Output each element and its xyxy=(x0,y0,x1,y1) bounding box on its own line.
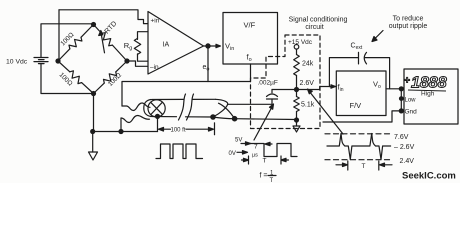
svg-text:+: + xyxy=(404,76,410,87)
svg-text:Gnd: Gnd xyxy=(405,109,418,116)
square wave glyph xyxy=(156,144,203,159)
svg-text:.002µF: .002µF xyxy=(258,80,278,87)
svg-text:10 Vdc: 10 Vdc xyxy=(6,59,28,66)
DPM display underline xyxy=(408,90,446,91)
svg-text:+in: +in xyxy=(151,17,160,24)
wire battery+ to bridge top node xyxy=(41,24,94,58)
svg-text:–in: –in xyxy=(150,64,159,71)
capacitor .002uF xyxy=(267,90,278,105)
node cable return junction xyxy=(119,130,123,134)
svg-text:100 ft: 100 ft xyxy=(170,127,185,133)
wire bridge left node to top bus xyxy=(58,10,60,61)
resistor 100 ohm top-left arm xyxy=(56,22,96,63)
svg-text:1888: 1888 xyxy=(411,74,447,91)
svg-text:– 2.6V: – 2.6V xyxy=(394,144,415,151)
svg-text:7: 7 xyxy=(254,144,258,151)
svg-text:F/V: F/V xyxy=(350,101,362,110)
waveform 5V square wave xyxy=(237,142,297,164)
wire ground bus to cable return xyxy=(93,131,158,133)
resistor 100 ohm bottom-right arm xyxy=(91,59,129,96)
svg-text:2.6V: 2.6V xyxy=(300,80,315,87)
node bridge top xyxy=(92,23,96,27)
wire eo measurement stub xyxy=(207,46,209,82)
ground symbol signal conditioning xyxy=(293,126,300,132)
wire F/V Vo to DPM xyxy=(386,88,401,90)
wire bridge right node to IA -in xyxy=(127,61,148,66)
waveform F/V input spikes xyxy=(325,134,392,171)
node Low terminal xyxy=(400,97,404,101)
wire 2.6V node to F/V fin xyxy=(272,87,335,90)
resistor RTD top-right arm xyxy=(91,22,129,63)
terminal +15 Vdc xyxy=(294,45,299,50)
wire IA output eo xyxy=(204,45,221,47)
DPM meter block xyxy=(404,69,458,124)
cable shield circle xyxy=(148,100,165,117)
resistor 24k xyxy=(294,55,300,76)
cable jacket right end xyxy=(213,99,228,117)
svg-text:f =: f = xyxy=(260,173,268,180)
wire top bus to IA +in xyxy=(59,10,148,24)
dimension 100 ft xyxy=(159,123,215,135)
svg-text:2.4V: 2.4V xyxy=(400,158,415,165)
wire 2.6V node to 5.1k xyxy=(296,90,298,97)
cable upper conductor curl xyxy=(122,103,150,111)
svg-text:+15 Vdc: +15 Vdc xyxy=(288,39,313,46)
leader arrow to output ripple cap xyxy=(374,31,383,40)
svg-text:Low: Low xyxy=(405,98,417,104)
resistor 5.1k xyxy=(294,97,300,112)
svg-text:Signal conditioning: Signal conditioning xyxy=(289,17,348,24)
svg-text:IA: IA xyxy=(163,41,170,48)
node cable bottom B xyxy=(232,117,236,121)
wire bridge bottom to ground bus xyxy=(93,94,95,132)
svg-text:To reduce: To reduce xyxy=(393,16,424,23)
node cable shield to bus xyxy=(156,114,160,118)
cable lower conductor curl xyxy=(121,116,150,132)
wire Gnd return under F/V xyxy=(323,111,401,122)
svg-text:V/F: V/F xyxy=(244,21,256,30)
leader arrow waveform to 2.6V node xyxy=(309,91,343,134)
ground symbol xyxy=(92,132,94,153)
svg-text:5V: 5V xyxy=(235,138,242,144)
svg-text:7.6V: 7.6V xyxy=(394,134,409,141)
svg-text:T: T xyxy=(270,178,274,183)
node Vo terminal xyxy=(399,87,403,91)
resistor Rg xyxy=(134,32,148,62)
wire fo output down-left to cable xyxy=(122,64,251,106)
node bridge bottom xyxy=(92,92,96,96)
wire cable signal to coupling cap xyxy=(228,103,272,105)
cable break marks xyxy=(179,94,186,120)
wire battery- to bridge bottom node xyxy=(41,64,94,94)
F/V converter block xyxy=(336,71,386,116)
fraction bar f=1/T xyxy=(268,175,276,177)
svg-text:High: High xyxy=(421,91,435,98)
svg-text:SeekIC.com: SeekIC.com xyxy=(402,171,456,182)
node 5.1k ground xyxy=(295,118,299,122)
cable jacket outline xyxy=(144,100,151,117)
svg-text:output ripple: output ripple xyxy=(389,23,428,30)
node eo xyxy=(206,44,210,48)
capacitor Cext loop xyxy=(329,58,358,87)
node bridge left xyxy=(56,59,60,63)
svg-text:0V: 0V xyxy=(229,151,236,157)
svg-text:circuit: circuit xyxy=(305,24,323,31)
V/F converter block xyxy=(223,13,278,65)
svg-text:T: T xyxy=(263,158,267,165)
svg-text:µs: µs xyxy=(252,153,258,159)
node cable bottom A xyxy=(211,115,215,119)
node ground bus junction xyxy=(91,130,95,134)
return bus cable to 5.1k ground xyxy=(213,117,297,120)
node bridge right xyxy=(125,59,129,63)
signal conditioning dashed box xyxy=(251,35,321,129)
svg-text:T: T xyxy=(362,163,366,170)
node Gnd terminal xyxy=(399,109,403,113)
wire DPM terminal chain xyxy=(400,89,402,111)
leader arrow waveform to signal wire xyxy=(254,106,273,140)
node 2.6V xyxy=(295,88,299,92)
op-amp IA xyxy=(148,12,204,75)
RTD variable arrow xyxy=(101,32,105,53)
cable conductor to return bus xyxy=(219,103,235,119)
resistor 100 ohm bottom-left arm xyxy=(56,59,96,96)
svg-text:5.1k: 5.1k xyxy=(301,102,315,109)
svg-text:24k: 24k xyxy=(302,61,314,68)
battery 10 Vdc xyxy=(34,58,48,64)
